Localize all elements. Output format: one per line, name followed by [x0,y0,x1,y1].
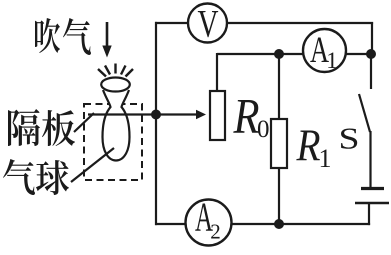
leader line for label 隔板 [74,113,94,132]
voltmeter V circle [188,4,227,43]
label 气球 (balloon) [3,159,35,195]
svg-text:S: S [338,122,359,156]
node: R1 bottom junction [274,219,284,229]
battery negative plate (short) [361,187,384,190]
wire: switch upper lead from A1 node [370,54,372,89]
battery positive plate (long) [355,202,389,205]
wire: A1 left lead [279,53,303,55]
wire: R0 top horizontal to node [217,53,279,55]
svg-text:1: 1 [326,48,338,73]
wire: A1 right lead [346,53,371,55]
label 隔板 (partition) [8,109,40,146]
resistor R1 body [271,119,287,168]
blow-air down arrow shaft [106,22,109,50]
ammeter A2 circle [186,200,232,246]
resistor R0 body (rheostat track) [210,91,225,140]
switch S blade (open) [359,94,370,132]
ammeter A1 circle [303,29,346,72]
wiper arrowhead [196,110,206,119]
svg-text:R: R [233,88,260,144]
svg-text:V: V [198,3,219,46]
wiper arrow shaft [156,113,197,115]
wire: bottom-left to A2 [155,223,186,225]
wire: R1 bottom stem [278,168,280,224]
node: balloon-wiper junction [151,110,161,120]
wire: R1 top stem [278,54,280,119]
vibration rays [98,64,133,77]
wire: R0 top stem [216,53,218,91]
wire: left vertical branch [155,22,157,225]
balloon body with neck [103,90,130,161]
wire: A2 to bottom-right corner [232,223,371,225]
svg-text:1: 1 [319,144,332,173]
wire: battery negative stem [368,203,370,225]
svg-text:0: 0 [257,116,270,143]
wire: voltmeter to top-right corner [227,22,373,24]
wire: top-right vertical down to A1 node [371,22,373,54]
funnel mouth [101,78,130,92]
wire: switch to battery lead [369,131,371,188]
node: R1 top junction [274,49,284,59]
blow arrow head [102,46,111,58]
svg-text:2: 2 [210,220,221,244]
node: A1 right junction [366,49,376,59]
svg-text:R: R [296,120,321,171]
wire: top-left to voltmeter [155,22,188,24]
label 吹气 (blow air) [35,18,60,53]
leader line for label 气球 [71,148,114,182]
dashed enclosure box [84,104,142,180]
partition plate line [88,113,156,115]
